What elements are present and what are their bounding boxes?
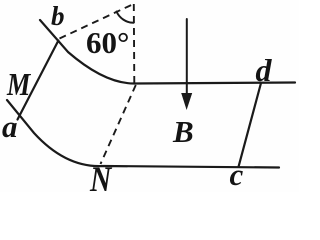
60 degree angle arc at vertex <box>117 12 134 23</box>
magnetic field arrow B head <box>181 93 192 110</box>
rod ab on incline <box>18 41 59 120</box>
magnetic field arrow B shaft <box>186 19 188 95</box>
label b <box>51 3 65 30</box>
label N <box>90 161 111 197</box>
label M <box>7 68 30 100</box>
dashed slanted line from top rail down to N <box>101 85 136 164</box>
top rail through b (incline curving to horizontal, ends at d side) <box>40 20 295 84</box>
dashed line from b to angle vertex <box>60 4 134 39</box>
dashed vertical line from vertex down to top rail <box>133 4 136 84</box>
label a <box>2 111 18 142</box>
bottom rail M-N (incline curving to horizontal through N to c side) <box>7 100 279 168</box>
label 60deg <box>86 27 129 58</box>
rod cd on horizontal rails <box>239 83 262 167</box>
label d <box>256 54 272 86</box>
label c <box>230 159 244 190</box>
label B <box>173 116 194 147</box>
